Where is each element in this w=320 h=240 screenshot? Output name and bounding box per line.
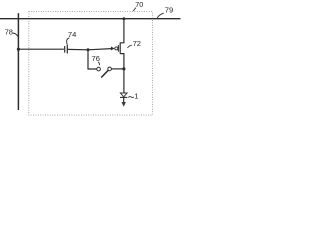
- svg-text:74: 74: [68, 30, 76, 39]
- svg-text:70: 70: [135, 0, 143, 9]
- svg-text:76: 76: [91, 54, 99, 63]
- svg-text:78: 78: [5, 27, 13, 36]
- svg-text:72: 72: [133, 39, 141, 48]
- svg-text:79: 79: [165, 6, 173, 15]
- svg-text:1: 1: [134, 91, 138, 100]
